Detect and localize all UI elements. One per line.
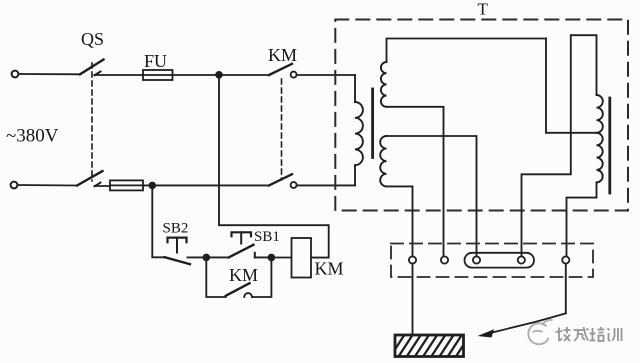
wire node C to SB1 [206,256,228,258]
KM auxiliary contact branch: wire down from node C [206,260,226,297]
KM auxiliary fixed contact semicircle [244,293,252,297]
KM main contact 2 fixed contact circle [291,182,297,188]
SB1 blade [229,245,254,258]
wire aux contact up to node D [252,258,271,298]
node B junction dot [149,183,155,189]
wire KM contact 1 to transformer primary [297,74,355,76]
contactor KM main contact 2 blade [269,174,292,185]
SB2 blade [165,257,191,264]
KM mechanical link (dashed) [281,79,283,180]
coil KM rectangle [292,238,312,278]
KM auxiliary contact blade [226,283,250,295]
QS pole 1 fixed contact tick [95,72,101,76]
watermark text 技成培训 (approximated strokes) [556,327,622,341]
svg-text:KM: KM [229,265,258,285]
SB2 stem [176,238,178,253]
T1 secondary winding S2 [380,136,386,186]
wire S2 bottom to terminal 1 [387,186,413,256]
wire QS to fuse FU2 [95,185,111,187]
T2 winding lower section [597,133,603,183]
训 [608,329,610,331]
svg-text:KM: KM [268,45,297,65]
pushbutton SB1 (NO) cap [232,232,252,236]
T1 primary winding leads [354,75,356,102]
T2 winding upper section [597,95,603,133]
terminal 1 [409,256,416,263]
svg-text:KM: KM [315,259,344,279]
svg-text:T: T [478,0,489,19]
wire FU2 to node B [143,184,269,186]
T1 secondary winding S1 [381,62,387,107]
wire phase B from terminal to QS [18,184,77,187]
培 [592,328,594,340]
wire T2 winding bottom to terminal 5 [567,182,597,256]
svg-text:SB2: SB2 [163,221,189,237]
wire node D to coil KM [271,257,291,259]
wire node B down to SB2 [152,188,165,257]
pushbutton SB2 (NC) cap [168,238,187,243]
wire terminal 5 down to electrode arrow [565,264,567,313]
watermark logo swirl [528,320,552,345]
shorting link oval around terminals 3-4 [465,253,535,268]
T2 core [608,98,611,193]
wire tap bus down to T2 winding tap [546,39,597,133]
wire S1 top to tap bus [387,39,547,63]
T1 primary lower lead [354,165,356,185]
svg-text:FU: FU [144,51,167,71]
node A junction dot [216,72,222,78]
terminal L1 (top-left circle) [12,71,19,78]
SB1 fixed contact tick [254,253,256,258]
transformer T dashed enclosure [335,20,628,211]
wire KM contact 2 to transformer primary return [297,184,355,186]
terminal 2 [441,256,448,263]
terminal strip dashed box [391,244,593,278]
terminal 3 [473,256,480,263]
wire FU1 to node A [173,74,270,76]
svg-text:SB1: SB1 [254,229,280,245]
QS pole 2 fixed contact tick [95,183,101,187]
wire T2 winding top to terminal 4 [522,35,597,256]
wire SB1 to node D [255,256,272,258]
wire QS to fuse FU1 [95,74,144,76]
wire S2 top to terminal 3 [387,136,477,256]
wire terminal 1 down to workpiece [412,264,414,335]
contactor KM main contact 1 blade [269,64,292,75]
terminal 5 [562,256,569,263]
KM main contact 1 fixed contact circle [291,72,297,78]
fuse FU2 [110,180,143,190]
成 [574,329,586,331]
terminal L2 (lower-left circle) [11,182,18,189]
node C junction dot [203,255,209,261]
T1 primary winding coil [355,102,363,165]
workpiece hatched block [390,334,471,357]
electrode lead diagonal with arrowhead [490,313,566,333]
SB1 stem [240,232,242,243]
wire S1 bottom to terminal 2 [387,107,444,257]
switch QS pole 1 blade [80,60,104,75]
svg-text:~380V: ~380V [6,126,59,147]
QS mechanical link (dashed) [91,63,93,181]
T1 core [371,89,374,158]
fuse FU1 [143,70,173,80]
wire node A down to control branch [219,78,329,258]
技 [558,328,560,342]
switch QS pole 2 blade [77,171,103,186]
node D junction dot [269,255,275,261]
wire phase A from terminal to QS [19,73,80,75]
svg-text:QS: QS [81,29,104,49]
terminal 4 [518,256,525,263]
wire SB2 to node C [188,256,207,258]
